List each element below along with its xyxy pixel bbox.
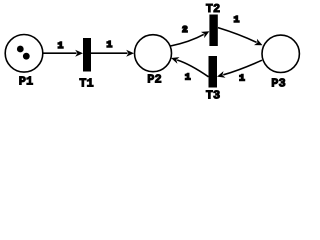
token 1 in P1: [17, 46, 24, 53]
transition T1: [83, 38, 91, 72]
svg-text:T2: T2: [206, 2, 220, 16]
transition T3: [209, 56, 218, 88]
arc P1 to T1: [44, 52, 77, 54]
token 2 in P1: [23, 53, 30, 60]
arc P3 to T3: [223, 60, 262, 75]
arc T2 to P3: [218, 28, 257, 43]
arc P2 to T2: [171, 34, 204, 46]
svg-text:T1: T1: [79, 77, 93, 91]
transition T2: [209, 15, 217, 47]
place P3: [262, 35, 299, 72]
place P2: [135, 35, 172, 72]
svg-text:1: 1: [234, 14, 240, 25]
svg-text:P3: P3: [271, 77, 285, 91]
svg-text:P2: P2: [147, 73, 161, 87]
svg-text:1: 1: [185, 72, 191, 83]
svg-text:1: 1: [239, 72, 245, 83]
svg-text:P1: P1: [19, 75, 33, 89]
svg-text:1: 1: [58, 40, 64, 51]
svg-text:2: 2: [182, 24, 188, 35]
place P1: [5, 35, 43, 73]
svg-text:1: 1: [106, 39, 112, 50]
arc T3 to P2: [177, 60, 208, 77]
svg-text:T3: T3: [206, 89, 220, 101]
arc T1 to P2: [91, 52, 128, 54]
